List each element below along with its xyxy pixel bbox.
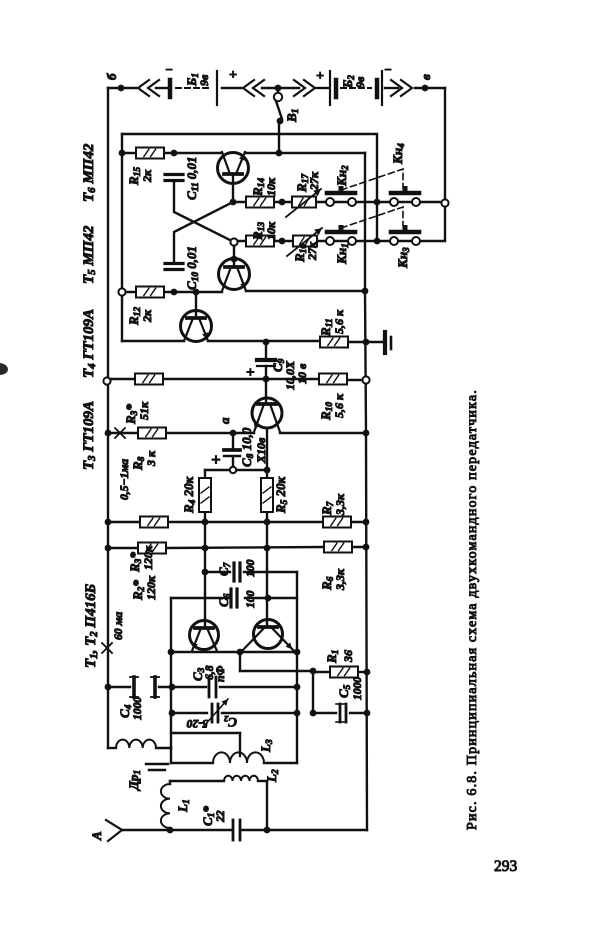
- svg-text:3,3к: 3,3к: [333, 493, 347, 516]
- svg-text:22: 22: [214, 810, 227, 823]
- svg-text:−: −: [384, 62, 392, 77]
- svg-text:2к: 2к: [140, 169, 154, 183]
- svg-text:9в: 9в: [353, 76, 367, 88]
- svg-text:Х10в: Х10в: [254, 437, 268, 464]
- svg-text:27к: 27к: [307, 171, 321, 191]
- svg-text:а: а: [217, 417, 232, 424]
- svg-text:10к: 10к: [264, 221, 278, 240]
- svg-text:120к: 120к: [141, 545, 155, 570]
- svg-text:1000: 1000: [351, 677, 364, 700]
- svg-text:60 ма: 60 ма: [112, 612, 125, 640]
- svg-text:100: 100: [244, 559, 257, 577]
- svg-text:0,5−1ма: 0,5−1ма: [118, 459, 131, 500]
- svg-text:2к: 2к: [140, 309, 154, 323]
- svg-text:10 в: 10 в: [295, 363, 309, 384]
- svg-text:10к: 10к: [264, 177, 278, 196]
- svg-text:+: +: [211, 450, 221, 469]
- svg-text:36: 36: [341, 650, 355, 663]
- svg-text:9в: 9в: [197, 74, 211, 86]
- svg-text:27к: 27к: [305, 241, 319, 261]
- svg-text:−: −: [165, 62, 173, 77]
- svg-text:+: +: [229, 68, 237, 83]
- svg-text:Т6 МП42: Т6 МП42: [81, 143, 98, 202]
- svg-text:3 к: 3 к: [144, 450, 158, 467]
- svg-text:293: 293: [494, 858, 518, 875]
- svg-text:+: +: [246, 365, 255, 381]
- svg-text:Рис. 6.8. Принципиальная схем: Рис. 6.8. Принципиальная схема двухкоман…: [465, 389, 480, 830]
- svg-text:Т5 МП42: Т5 МП42: [81, 225, 98, 284]
- svg-text:пФ: пФ: [214, 666, 227, 682]
- svg-text:+: +: [316, 69, 324, 84]
- svg-text:100: 100: [244, 590, 257, 608]
- svg-text:в: в: [418, 74, 433, 80]
- svg-text:R5 20к: R5 20к: [273, 476, 290, 514]
- svg-text:С10 0,01: С10 0,01: [184, 246, 201, 290]
- svg-text:R4 20к: R4 20к: [181, 476, 198, 514]
- svg-text:3,3к: 3,3к: [333, 568, 347, 591]
- svg-text:С11 0,01: С11 0,01: [184, 156, 201, 200]
- svg-text:120к: 120к: [144, 575, 158, 600]
- svg-text:5,6 к: 5,6 к: [332, 309, 346, 334]
- svg-text:б: б: [104, 73, 119, 80]
- svg-text:А: А: [89, 831, 104, 841]
- svg-text:51к: 51к: [137, 401, 151, 420]
- svg-text:5,6 к: 5,6 к: [332, 393, 346, 418]
- svg-text:1000: 1000: [131, 697, 144, 720]
- svg-text:5-20: 5-20: [187, 717, 208, 730]
